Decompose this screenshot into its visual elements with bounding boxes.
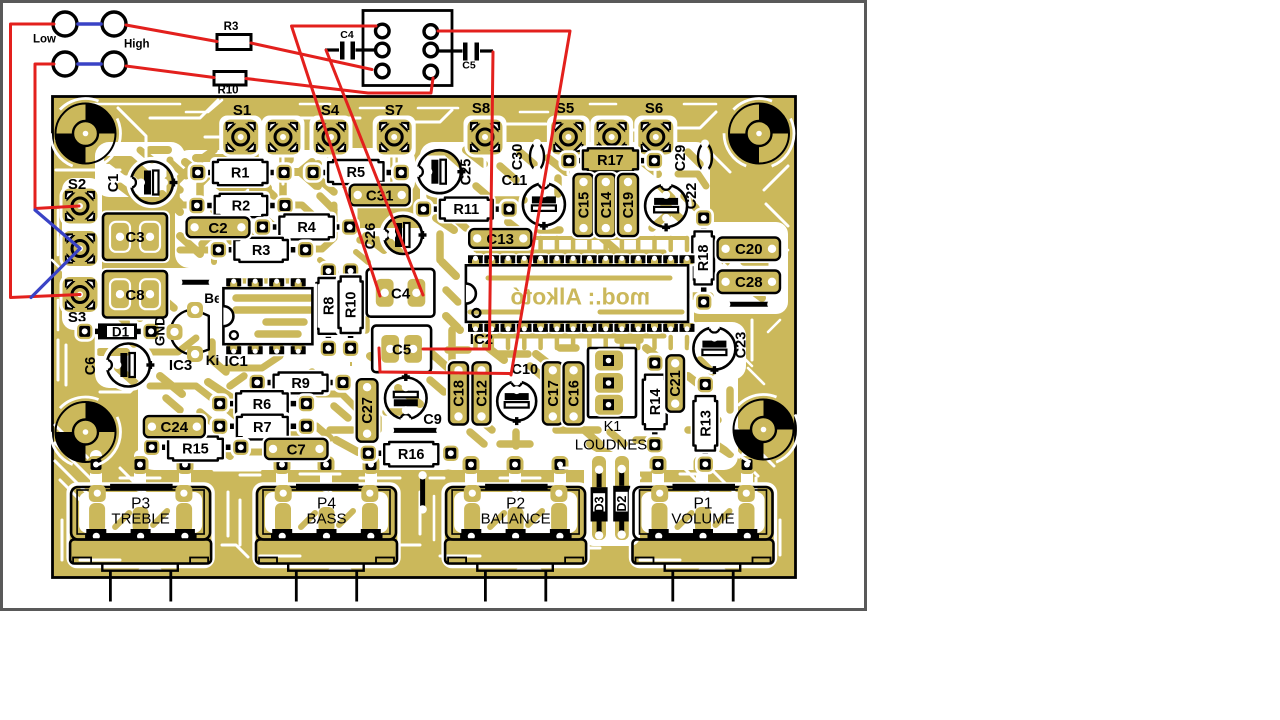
connector Low left circle xyxy=(53,12,77,36)
diode D2 xyxy=(613,465,630,539)
mounting hole bottom-right xyxy=(764,400,794,430)
wire red High-R10 xyxy=(126,66,214,78)
svg-text:R7: R7 xyxy=(253,420,272,436)
svg-text:C23: C23 xyxy=(734,332,750,359)
svg-text:TREBLE: TREBLE xyxy=(111,511,169,528)
potentiometer P4 xyxy=(254,484,399,602)
svg-text:R6: R6 xyxy=(253,397,272,413)
svg-text:BALANCE: BALANCE xyxy=(481,511,551,528)
mounting hole top-left xyxy=(86,104,116,134)
solder pad S8 xyxy=(466,118,504,156)
svg-text:LOUDNES: LOUDNES xyxy=(575,437,648,454)
wire red High to S2 xyxy=(35,64,79,209)
svg-text:C26: C26 xyxy=(363,223,379,250)
svg-text:K1: K1 xyxy=(604,419,622,435)
solder pad S4 xyxy=(312,118,350,156)
svg-text:R13: R13 xyxy=(698,410,714,437)
svg-text:R10: R10 xyxy=(217,85,238,97)
capacitor C12 xyxy=(470,359,494,427)
wire red R10-box xyxy=(246,78,433,93)
svg-text:C3: C3 xyxy=(125,229,144,246)
capacitor C2 xyxy=(184,215,253,241)
capacitor C7 xyxy=(262,436,331,462)
svg-text:D2: D2 xyxy=(615,496,629,512)
resistor R2 xyxy=(188,191,294,220)
switch box xyxy=(363,11,452,86)
svg-text:R9: R9 xyxy=(291,376,310,392)
jumper wire near C9 xyxy=(386,426,445,434)
svg-text:C24: C24 xyxy=(161,419,189,436)
svg-text:R16: R16 xyxy=(398,447,425,463)
capacitor C16 xyxy=(561,359,587,427)
connector Low right circle xyxy=(102,12,126,36)
wire red C5 pad link xyxy=(379,348,511,374)
svg-text:C11: C11 xyxy=(501,173,527,189)
svg-text:C17: C17 xyxy=(546,380,562,407)
PCB board xyxy=(53,97,796,578)
capacitor C21 xyxy=(663,352,687,414)
capacitor C9 xyxy=(383,373,442,428)
resistor R4 xyxy=(254,212,359,243)
capacitor C30 xyxy=(510,139,544,174)
jumper wire between P4 and P2 xyxy=(418,471,426,514)
capacitor C8 xyxy=(100,268,170,321)
solder pad pad xyxy=(593,118,631,156)
resistor R1 xyxy=(189,157,293,188)
switch pin 1 xyxy=(376,24,390,38)
svg-text:C6: C6 xyxy=(83,357,99,376)
svg-text:R4: R4 xyxy=(297,220,316,236)
svg-text:C16: C16 xyxy=(567,380,583,407)
svg-text:High: High xyxy=(124,39,150,51)
wire red box top-right to C10 xyxy=(438,31,570,375)
capacitor C4 xyxy=(367,269,435,317)
capacitor C15 xyxy=(571,171,597,239)
resistor R6 xyxy=(211,388,316,419)
mounting hole bottom-left xyxy=(86,402,116,432)
svg-text:S6: S6 xyxy=(645,100,663,117)
capacitor C14 xyxy=(593,171,619,239)
capacitor C24 xyxy=(141,413,208,440)
svg-text:R17: R17 xyxy=(597,153,624,169)
svg-text:C21: C21 xyxy=(668,370,684,397)
capacitor C26 xyxy=(363,214,427,257)
svg-text:C25: C25 xyxy=(459,159,475,186)
capacitor C1 xyxy=(106,159,178,206)
solder pad pad xyxy=(264,118,302,156)
svg-text:R3: R3 xyxy=(224,21,239,33)
svg-text:C7: C7 xyxy=(287,441,306,458)
switch pin 2 xyxy=(376,43,390,57)
blue wire High pair xyxy=(78,62,101,66)
resistor R10 (wire) xyxy=(214,72,246,97)
svg-text:C22: C22 xyxy=(684,183,700,210)
capacitor C13 xyxy=(466,226,534,251)
svg-text:C14: C14 xyxy=(599,192,615,219)
svg-text:R1: R1 xyxy=(231,166,250,182)
capacitor C31 xyxy=(347,182,413,209)
switch pin 5 xyxy=(424,43,438,57)
potentiometer P3 xyxy=(68,484,213,602)
resistor R3 (wire) xyxy=(217,21,251,50)
resistor R9 xyxy=(248,370,352,396)
svg-text:C1: C1 xyxy=(106,174,122,193)
switch pin 6 xyxy=(424,65,438,79)
svg-text:C10: C10 xyxy=(511,362,538,378)
capacitor C23 xyxy=(691,322,750,374)
connector High right circle xyxy=(102,52,126,76)
svg-text:R5: R5 xyxy=(347,165,366,181)
svg-text:R11: R11 xyxy=(453,202,479,218)
svg-text:S1: S1 xyxy=(233,102,251,119)
wire red Low to S3 xyxy=(11,24,81,298)
capacitor C29 xyxy=(673,140,712,175)
connector K1 xyxy=(575,348,648,454)
extra channels and stubs xyxy=(51,99,799,561)
svg-text:R2: R2 xyxy=(232,199,251,215)
capacitor C5 xyxy=(372,326,431,373)
resistor R8 xyxy=(314,262,344,357)
solder pad mid xyxy=(61,230,99,268)
switch pin 4 xyxy=(424,25,438,39)
capacitor C6 xyxy=(83,341,154,389)
svg-text:R10: R10 xyxy=(344,291,360,318)
svg-text:C15: C15 xyxy=(577,192,593,219)
resistor R16 xyxy=(359,439,460,469)
capacitor C3 xyxy=(100,211,170,264)
resistor R15 xyxy=(143,434,250,464)
svg-text:C12: C12 xyxy=(475,380,491,407)
transistor IC3 xyxy=(153,291,223,374)
capacitor C4 (top) xyxy=(325,29,375,60)
trace separation channels xyxy=(55,100,788,570)
resistor R14 xyxy=(640,354,670,454)
resistor R10 xyxy=(336,262,366,357)
svg-text:C9: C9 xyxy=(423,412,442,428)
solder pad S5 xyxy=(549,118,587,156)
pad clearance halos xyxy=(219,116,677,159)
potentiometer P2 xyxy=(443,484,588,602)
svg-text:D3: D3 xyxy=(593,496,607,512)
capacitor C10 xyxy=(495,362,539,425)
capacitor C17 xyxy=(540,359,566,427)
blue wire Low pair xyxy=(78,22,101,26)
capacitor C5 (top) xyxy=(438,43,493,72)
wire blue S2 zigzag xyxy=(31,210,80,298)
svg-text:Ki: Ki xyxy=(206,353,220,368)
svg-text:S4: S4 xyxy=(321,102,340,119)
solder pad S7 xyxy=(375,118,413,156)
mounting hole top-right xyxy=(759,104,789,134)
solder pad S1 xyxy=(222,118,260,156)
svg-text:S8: S8 xyxy=(472,100,490,117)
capacitor C28 xyxy=(715,268,783,297)
resistor R18 xyxy=(690,209,717,311)
solder pad S2 xyxy=(61,187,99,225)
capacitor C18 xyxy=(446,359,471,427)
solder pad S6 xyxy=(637,118,675,156)
audio processor IC2 xyxy=(463,254,695,348)
wire red box top-left pin xyxy=(292,26,381,296)
svg-text:C20: C20 xyxy=(735,241,763,258)
svg-text:R3: R3 xyxy=(252,243,271,259)
capacitor C19 xyxy=(615,171,641,239)
svg-text:C31: C31 xyxy=(366,188,394,205)
svg-text:R14: R14 xyxy=(648,389,664,416)
capacitor C22 xyxy=(643,180,700,232)
svg-text:R8: R8 xyxy=(321,297,337,316)
connector High left circle xyxy=(53,52,77,76)
svg-text:C27: C27 xyxy=(360,397,376,424)
wire red R3-box xyxy=(251,43,372,70)
svg-text:C5: C5 xyxy=(462,60,476,72)
svg-text:R18: R18 xyxy=(696,245,712,272)
resistor R5 xyxy=(304,157,410,187)
svg-text:C5: C5 xyxy=(392,341,411,358)
diode D3 xyxy=(591,466,608,540)
wire red C4 lead to board xyxy=(326,50,423,295)
svg-text:Low: Low xyxy=(33,34,56,46)
capacitor C25 xyxy=(413,148,475,196)
svg-text:C28: C28 xyxy=(735,274,763,291)
wire red Low-R3 xyxy=(126,25,217,42)
copper traces xyxy=(100,122,768,457)
diode D1 xyxy=(76,322,160,340)
svg-text:C29: C29 xyxy=(673,145,689,172)
wire red C5cap to C5 xyxy=(423,52,493,349)
op-amp IC1 xyxy=(220,277,315,370)
svg-text:VOLUME: VOLUME xyxy=(671,511,734,528)
resistor R3 xyxy=(209,235,314,265)
svg-text:D1: D1 xyxy=(112,325,130,340)
svg-text:C18: C18 xyxy=(452,380,468,407)
svg-text:C19: C19 xyxy=(621,192,637,219)
svg-text:IC1: IC1 xyxy=(225,353,248,370)
svg-text:IC3: IC3 xyxy=(169,357,192,374)
svg-text:GND: GND xyxy=(153,316,168,346)
solder pad S3 xyxy=(61,276,99,314)
resistor R7 xyxy=(211,412,316,442)
resistor R13 xyxy=(691,376,720,474)
svg-text:C30: C30 xyxy=(510,144,526,171)
svg-text:C4: C4 xyxy=(391,285,411,302)
capacitor C11 xyxy=(501,173,567,230)
svg-text:C8: C8 xyxy=(125,287,144,304)
potentiometer P1 xyxy=(631,484,776,602)
jumper wire below C28 xyxy=(722,300,776,308)
svg-text:C2: C2 xyxy=(208,220,227,237)
svg-text:C4: C4 xyxy=(340,29,354,41)
svg-text:R15: R15 xyxy=(182,442,209,458)
jumper wire near IC1 xyxy=(174,278,217,286)
svg-text:BASS: BASS xyxy=(306,511,346,528)
resistor R17 xyxy=(560,146,664,175)
white clearance zones xyxy=(62,142,788,470)
svg-text:S2: S2 xyxy=(68,176,86,193)
svg-text:mod.: Alkotó: mod.: Alkotó xyxy=(510,284,650,310)
resistor R11 xyxy=(415,195,519,224)
svg-text:S7: S7 xyxy=(385,102,403,119)
switch pin 3 xyxy=(376,64,390,78)
capacitor C20 xyxy=(715,235,783,264)
capacitor C27 xyxy=(354,376,381,445)
